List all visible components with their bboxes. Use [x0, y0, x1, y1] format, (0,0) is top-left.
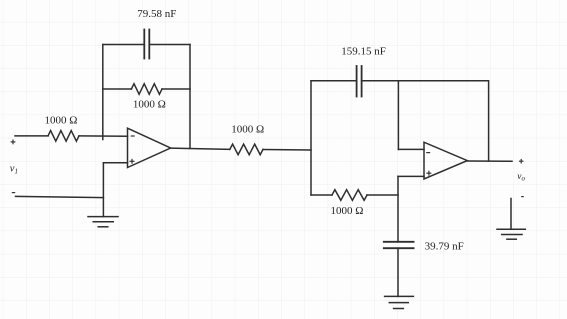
svg-text:39.79 nF: 39.79 nF: [425, 240, 464, 252]
svg-text:159.15 nF: 159.15 nF: [341, 45, 386, 57]
svg-text:1000 Ω: 1000 Ω: [231, 124, 264, 136]
svg-text:79.58 nF: 79.58 nF: [137, 8, 176, 20]
svg-text:1000 Ω: 1000 Ω: [133, 98, 166, 110]
svg-text:vo: vo: [517, 172, 525, 183]
svg-text:1000 Ω: 1000 Ω: [331, 205, 364, 217]
svg-text:1000 Ω: 1000 Ω: [45, 115, 78, 127]
